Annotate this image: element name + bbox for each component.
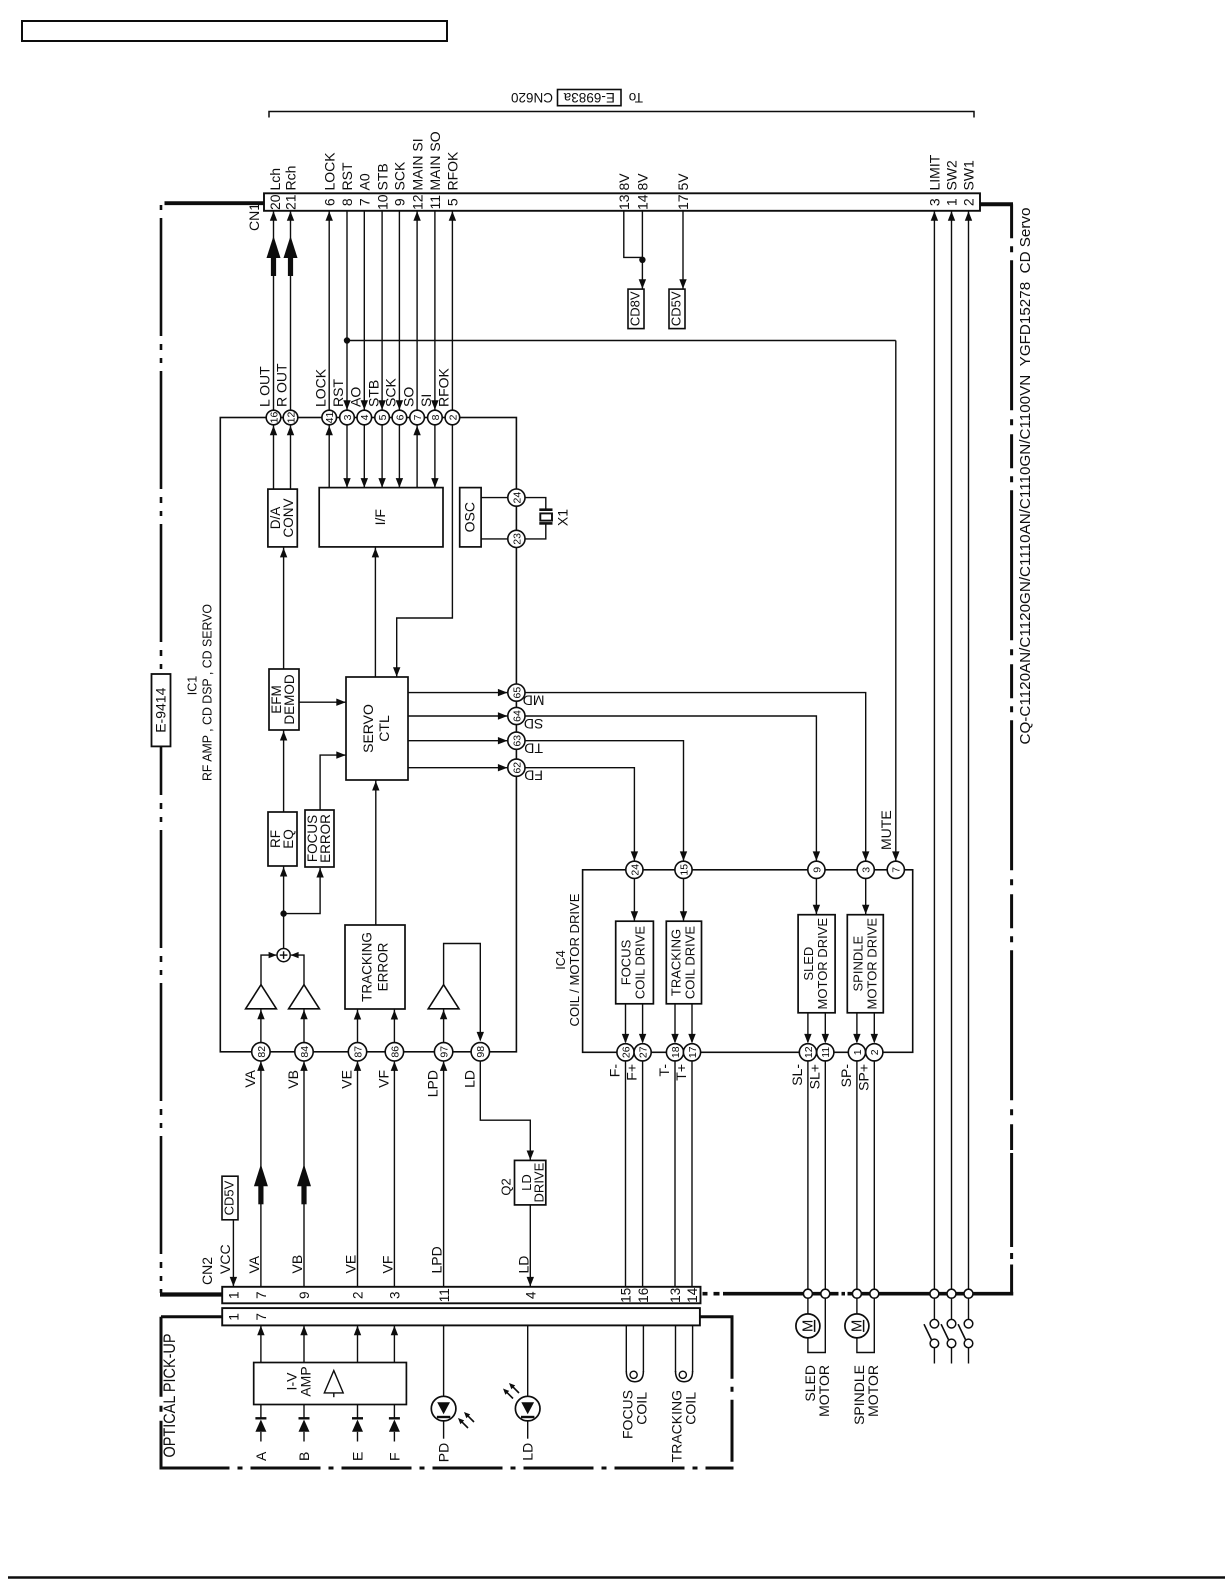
- IC4 pin circle 15: [675, 861, 692, 878]
- svg-text:14: 14: [685, 1287, 700, 1303]
- wire coil/motor drive output: [691, 1004, 693, 1042]
- svg-text:1: 1: [944, 198, 960, 206]
- svg-text:F: F: [386, 1452, 402, 1461]
- svg-text:Q2: Q2: [498, 1178, 513, 1195]
- svg-text:18: 18: [670, 1046, 682, 1058]
- arrow down into IC4 pin 7 (MUTE): [892, 851, 899, 861]
- block OSC: [460, 488, 481, 547]
- svg-text:VCC: VCC: [217, 1244, 233, 1274]
- wire SERVO CTL to I/F: [374, 547, 376, 677]
- svg-text:6: 6: [321, 198, 337, 206]
- svg-text:3: 3: [927, 198, 943, 206]
- wire LD DRIVE to CN2 pin 4: [529, 1205, 531, 1286]
- wire coil line to CN2: [691, 1061, 693, 1287]
- svg-text:97: 97: [439, 1046, 451, 1058]
- block FOCUS COIL DRIVE: [616, 921, 654, 1004]
- arrow down into IC4 bottom pin: [622, 1034, 629, 1044]
- svg-text:FD: FD: [524, 768, 543, 784]
- amp triangle A (VA): [246, 985, 277, 1009]
- IC4 pin circle 12 (SL-): [789, 1044, 817, 1086]
- thick arrow Rch: [284, 236, 298, 258]
- arrow down into FOCUS COIL DRIVE: [631, 911, 638, 921]
- arrow down into I/F top: [396, 478, 403, 488]
- svg-text:X1: X1: [554, 509, 570, 526]
- svg-text:24: 24: [511, 492, 523, 504]
- wire pin 86 to TRACKING ERROR: [393, 1009, 395, 1043]
- wire summing node to RF EQ: [283, 866, 285, 949]
- power label CD8V box: [628, 289, 644, 329]
- block EFM DEMOD: [269, 669, 299, 730]
- svg-text:SP-: SP-: [838, 1064, 854, 1088]
- IC4 pin circle 18 (T-): [656, 1044, 684, 1077]
- CN1 pin 1 (SW2): [944, 160, 960, 206]
- wire SERVO CTL to pin 62 (FD): [408, 767, 507, 769]
- svg-text:26: 26: [620, 1046, 632, 1058]
- amp triangle B (VB): [289, 985, 320, 1009]
- wire SW1 from switch to CN1: [968, 211, 970, 1290]
- arrow up into IC1 pin 7 (SO): [413, 426, 420, 436]
- block RF EQ: [268, 812, 297, 866]
- svg-text:5: 5: [445, 198, 461, 206]
- arrow down into CD8V: [639, 279, 646, 289]
- amp triangle inside I-V AMP: [324, 1371, 343, 1393]
- arrow down into IC4 pin 3: [862, 851, 869, 861]
- svg-text:5: 5: [377, 414, 389, 420]
- svg-text:2: 2: [961, 198, 977, 206]
- CN1 pin 12 (MAIN SI): [409, 138, 425, 210]
- svg-text:SL-: SL-: [789, 1064, 805, 1086]
- IC1 pin circle 2 (RFOK): [436, 367, 460, 424]
- arrow down into I/F top: [378, 478, 385, 488]
- arrow up into amp A: [257, 1010, 264, 1020]
- svg-text:SCK: SCK: [392, 161, 408, 190]
- svg-text:1: 1: [227, 1313, 242, 1321]
- svg-text:AMP: AMP: [298, 1366, 314, 1396]
- crystal X1: [539, 510, 552, 524]
- arrow up into CN1 (SW1): [965, 211, 972, 221]
- arrow up into IC1 pin 12: [287, 426, 294, 436]
- arrow down into IC4 bottom pin: [853, 1034, 860, 1044]
- tracking coil: [676, 1325, 693, 1381]
- wire IC4 pin 24 to FOCUS COIL DRIVE: [633, 878, 635, 920]
- wire branch to FOCUS ERROR: [284, 868, 321, 914]
- IC4 pin circle 1 (SP-): [838, 1044, 866, 1088]
- svg-text:1: 1: [227, 1292, 242, 1300]
- arrow up into CN1 pin 5 (RFOK): [449, 211, 456, 221]
- svg-text:11: 11: [437, 1288, 452, 1302]
- svg-text:84: 84: [299, 1046, 311, 1058]
- junction dot on RF line: [280, 910, 286, 916]
- wire photodiode E to pickup connector: [357, 1325, 359, 1362]
- wire IC1 pin circle to I/F: [346, 425, 348, 488]
- IC4 pin circle 3: [857, 861, 874, 878]
- arrow down into I/F top: [431, 478, 438, 488]
- wire SERVO CTL to pin 64 (SD): [408, 715, 507, 717]
- svg-text:F-: F-: [607, 1064, 623, 1078]
- CN1 pin 14 (8V): [635, 173, 651, 210]
- wire VF from IC1 to CN2: [393, 1061, 395, 1287]
- IC4 pin circle 11 (SL+): [806, 1044, 834, 1090]
- svg-text:VB: VB: [289, 1255, 305, 1274]
- svg-text:L OUT: L OUT: [257, 366, 273, 407]
- CN1 pin 10 (STB): [374, 163, 390, 210]
- svg-text:VB: VB: [285, 1070, 301, 1089]
- label FOCUS COIL: [619, 1390, 649, 1439]
- arrow up into D/A CONV bottom: [280, 548, 287, 558]
- wire FD from pin 62 to IC4 pin 24: [525, 768, 634, 861]
- wire SERVO CTL to pin 63 (TD): [408, 740, 507, 742]
- svg-text:CD8V: CD8V: [628, 291, 643, 326]
- svg-text:RFOK: RFOK: [445, 151, 461, 191]
- wire CD5V to CN2 pin 1: [232, 1220, 234, 1286]
- arrow down into CN2 pin 1 (VCC): [230, 1277, 237, 1287]
- arrow up into CN1 (LIMIT): [931, 211, 938, 221]
- svg-text:15: 15: [678, 864, 690, 876]
- arrow up into CN1 (SW2): [948, 211, 955, 221]
- wire coil line to CN2: [642, 1061, 644, 1287]
- svg-text:MUTE: MUTE: [878, 810, 894, 850]
- IC4 pin circle 26 (F-): [607, 1044, 635, 1078]
- arrow right into summing node: [269, 952, 277, 958]
- IC1 pin circle 86 (VF): [375, 1043, 403, 1088]
- svg-text:MOTOR DRIVE: MOTOR DRIVE: [815, 918, 830, 1010]
- border bottom-left thick stub to CN2: [160, 1292, 223, 1296]
- svg-text:12: 12: [285, 412, 297, 424]
- wire CN1 to IC1 (SCK): [398, 211, 400, 410]
- arrow down into SLED MOTOR DRIVE: [813, 905, 820, 915]
- svg-text:17: 17: [687, 1046, 699, 1058]
- svg-text:TD: TD: [524, 741, 543, 757]
- svg-text:COIL / MOTOR DRIVE: COIL / MOTOR DRIVE: [568, 894, 582, 1027]
- svg-text:LPD: LPD: [429, 1246, 445, 1273]
- svg-text:SL+: SL+: [806, 1064, 822, 1089]
- CN1 pin 8 (RST): [339, 162, 355, 206]
- block SPINDLE MOTOR DRIVE: [847, 915, 883, 1013]
- arrow down into IC1 pin circle: [378, 400, 385, 410]
- svg-text:3: 3: [342, 414, 354, 420]
- arrow down into IC1 pin circle: [361, 400, 368, 410]
- page bottom rule: [8, 1576, 1225, 1579]
- svg-text:2: 2: [351, 1292, 366, 1300]
- wire amp C output to pin 98: [444, 944, 481, 1041]
- svg-text:62: 62: [511, 762, 523, 774]
- wire coil/motor drive output: [824, 1013, 826, 1042]
- wire IC4 pin 9 to SLED MOTOR DRIVE: [815, 878, 817, 914]
- svg-text:TRACKING: TRACKING: [360, 932, 375, 1002]
- power label CD5V box (top): [669, 289, 685, 329]
- svg-text:10: 10: [374, 194, 390, 210]
- arrow down into IC4 bottom pin: [822, 1034, 829, 1044]
- CN1 pin 9 (SCK): [392, 161, 408, 206]
- wire CN1 pin17 5V to CD5V: [682, 211, 684, 289]
- wire motor line to border: [873, 1061, 875, 1290]
- svg-text:VF: VF: [379, 1256, 395, 1274]
- CN1 pin 21 (Rch): [283, 166, 299, 210]
- arrow down into IC4 bottom pin: [871, 1034, 878, 1044]
- CN1 pin 17 (5V): [675, 173, 691, 210]
- arrow down into IC4 bottom pin: [671, 1034, 678, 1044]
- OPTICAL PICK-UP dash-dot box: [160, 1317, 734, 1468]
- wire LD to pickup connector: [527, 1325, 529, 1396]
- arrow up into CN1 pin 20: [270, 211, 277, 221]
- border feedthrough circles (SL-,SL+,SP-,SP+,LIMIT,SW2,SW1): [803, 1289, 973, 1298]
- block I/F: [319, 488, 443, 547]
- svg-text:FOCUS: FOCUS: [619, 939, 634, 985]
- svg-text:E: E: [350, 1452, 366, 1461]
- svg-text:LIMIT: LIMIT: [927, 154, 943, 190]
- IC1 pin circle 84 (VB): [285, 1043, 313, 1089]
- svg-text:LOCK: LOCK: [312, 368, 328, 407]
- svg-text:CN620: CN620: [511, 90, 553, 105]
- light arrows from LD: [503, 1383, 519, 1399]
- amp triangle C (LPD): [428, 985, 459, 1009]
- wire pin 84 to amp B: [303, 1009, 305, 1043]
- IC1 block outline: [220, 418, 516, 1052]
- svg-text:MOTOR: MOTOR: [816, 1365, 832, 1417]
- svg-text:SP+: SP+: [855, 1064, 871, 1091]
- wire amp A to summing node: [261, 955, 276, 1008]
- wire OSC to pin 23: [481, 538, 508, 540]
- svg-text:7: 7: [357, 198, 373, 206]
- wire IC1 pin circle to I/F: [363, 425, 365, 488]
- transistor Q2 LD DRIVE block: [515, 1160, 547, 1205]
- arrow up into RF EQ bottom: [280, 867, 287, 877]
- svg-text:SO: SO: [400, 387, 416, 407]
- wire IC1 pin12 to D/A CONV: [290, 425, 292, 489]
- arrow down into TRACKING COIL DRIVE: [680, 911, 687, 921]
- svg-text:12: 12: [409, 194, 425, 210]
- svg-text:14: 14: [635, 194, 651, 210]
- wire MD from pin 65 to IC4 pin 3: [525, 693, 866, 861]
- svg-text:8: 8: [430, 414, 442, 420]
- svg-text:MAIN SO: MAIN SO: [427, 131, 443, 190]
- svg-text:2: 2: [869, 1049, 881, 1055]
- IC1 pin circle 82 (VA): [242, 1043, 270, 1088]
- arrow up into I/F bottom: [372, 548, 379, 558]
- svg-text:COIL DRIVE: COIL DRIVE: [633, 926, 648, 1000]
- svg-text:98: 98: [475, 1046, 487, 1058]
- arrow down into IC4 bottom pin: [688, 1034, 695, 1044]
- svg-text:3: 3: [388, 1292, 403, 1300]
- light arrows into PD: [458, 1412, 474, 1428]
- IC4 block outline: [583, 870, 913, 1053]
- svg-text:CQ-C1120AN/C1120GN/C1110AN/C11: CQ-C1120AN/C1120GN/C1110AN/C1110GN/C1100…: [1017, 208, 1034, 745]
- svg-text:9: 9: [297, 1292, 312, 1300]
- label SLED MOTOR: [802, 1365, 832, 1417]
- svg-text:24: 24: [629, 864, 641, 876]
- wire MUTE horizontal run: [347, 340, 896, 342]
- wire pin23 to crystal X1: [525, 524, 546, 539]
- arrow down into IC1 pin circle: [396, 400, 403, 410]
- svg-text:SD: SD: [524, 716, 543, 732]
- IC4 pin circle 2 (SP+): [855, 1044, 883, 1091]
- svg-text:A: A: [253, 1451, 269, 1461]
- arrow down into IC4 bottom pin: [804, 1034, 811, 1044]
- svg-text:SLED: SLED: [801, 947, 816, 981]
- arrow up into amp C: [440, 1010, 447, 1020]
- svg-text:82: 82: [256, 1046, 268, 1058]
- IC4 pin circle 24: [626, 861, 643, 878]
- wire CN1 to IC1 (R): [290, 211, 292, 410]
- wire IC1 pin circle to I/F: [328, 425, 330, 488]
- svg-text:LPD: LPD: [425, 1070, 441, 1097]
- wire TRACKING ERROR to SERVO CTL: [375, 780, 377, 925]
- IC1 pin circle 4 (AO): [348, 387, 372, 425]
- arrow up into amp B: [300, 1010, 307, 1020]
- wire coil/motor drive output: [873, 1013, 875, 1042]
- svg-text:COIL DRIVE: COIL DRIVE: [683, 926, 698, 1000]
- svg-text:8: 8: [339, 198, 355, 206]
- arrow up into TRACKING ERROR (VE): [354, 1010, 361, 1020]
- svg-text:LOCK: LOCK: [321, 152, 337, 191]
- wire RF EQ to EFM DEMOD: [283, 730, 285, 812]
- photodiode A: [255, 1405, 266, 1442]
- svg-text:Rch: Rch: [283, 166, 299, 191]
- wire LIMIT from switch to CN1: [933, 211, 935, 1290]
- wire motor line to border: [807, 1061, 809, 1290]
- title box (empty): [22, 21, 447, 41]
- svg-text:VF: VF: [375, 1070, 391, 1088]
- arrow up into FOCUS ERROR bottom: [316, 868, 323, 878]
- wire coil line to CN2: [625, 1061, 627, 1287]
- IC1 pin circle 65 (MD): [508, 684, 545, 709]
- power label CD5V box (CN2 VCC): [222, 1176, 238, 1220]
- svg-text:LD: LD: [520, 1443, 536, 1461]
- svg-text:OSC: OSC: [461, 502, 477, 532]
- wire IC4 pin 15 to TRACKING COIL DRIVE: [683, 878, 685, 920]
- arrow down into IC4 pin 9: [813, 851, 820, 861]
- wire motor line to border: [856, 1061, 858, 1290]
- wire VA from IC1 to CN2: [260, 1061, 262, 1287]
- wire MUTE vertical run to IC4: [895, 341, 897, 861]
- svg-text:11: 11: [427, 195, 443, 210]
- svg-text:64: 64: [511, 710, 523, 722]
- svg-text:SW2: SW2: [944, 160, 960, 191]
- block FOCUS ERROR: [305, 810, 334, 867]
- arrow up into pickup connector (B): [300, 1326, 307, 1336]
- arrow up into pickup connector (F): [391, 1326, 398, 1336]
- arrow right into SERVO CTL (focus error): [336, 751, 346, 758]
- wire EFM DEMOD to SERVO CTL: [299, 701, 346, 703]
- svg-text:ERROR: ERROR: [318, 814, 333, 863]
- svg-text:16: 16: [268, 412, 280, 424]
- arrow up into IC1 pin (LPD): [440, 1061, 447, 1071]
- wire photodiode F to pickup connector: [393, 1325, 395, 1362]
- IC1 pin circle 12 (R OUT): [274, 363, 298, 425]
- IC1 pin circle 24: [508, 489, 525, 506]
- arrow right into SERVO CTL (EFM): [336, 699, 346, 706]
- svg-text:TRACKING: TRACKING: [669, 929, 684, 996]
- svg-text:E-9414: E-9414: [152, 687, 168, 732]
- arrow down into IC1 pin circle: [431, 400, 438, 410]
- arrow down into CN2 pin 4: [527, 1277, 534, 1287]
- svg-text:CD5V: CD5V: [669, 291, 684, 326]
- arrow down into CD5V: [679, 279, 686, 289]
- wire motor line to border: [824, 1061, 826, 1290]
- arrow down into IC1 pin circle: [343, 400, 350, 410]
- block TRACKING ERROR: [345, 925, 405, 1009]
- svg-text:RST: RST: [339, 162, 355, 190]
- thick arrow VB: [297, 1164, 311, 1186]
- svg-text:MOTOR: MOTOR: [865, 1365, 881, 1417]
- svg-text:LD: LD: [461, 1070, 477, 1088]
- photodiode F: [389, 1405, 400, 1442]
- border left dash-dot line: [160, 205, 163, 1293]
- svg-text:RF AMP , CD DSP , CD SERVO: RF AMP , CD DSP , CD SERVO: [201, 604, 215, 781]
- wire pin 97 to amp C: [443, 1009, 445, 1043]
- svg-text:SCK: SCK: [383, 378, 399, 407]
- arrow right into pin 63: [498, 737, 508, 744]
- svg-text:SI: SI: [418, 394, 434, 407]
- IC1 pin circle 41 (LOCK): [312, 368, 336, 425]
- wire IC1 pin circle to I/F: [381, 425, 383, 488]
- svg-text:20: 20: [267, 194, 283, 210]
- CN1 pin 20 (Lch): [267, 168, 283, 210]
- svg-text:6: 6: [394, 414, 406, 420]
- IC4 pin circle 17 (T+): [673, 1044, 701, 1081]
- svg-text:9: 9: [392, 198, 408, 206]
- wire FOCUS ERROR to SERVO CTL: [320, 755, 346, 810]
- arrow up into IC1 pin (VA): [257, 1061, 264, 1071]
- arrow left into summing node: [291, 952, 299, 958]
- arrow down into IC4 bottom pin: [639, 1034, 646, 1044]
- IC1 pin circle 6 (SCK): [383, 378, 407, 425]
- svg-text:11: 11: [820, 1047, 832, 1058]
- wire CN1 to IC1 (RST): [346, 211, 348, 410]
- svg-text:7: 7: [412, 414, 424, 420]
- wire IC1 pin16 to D/A CONV: [273, 425, 275, 489]
- label SPINDLE MOTOR: [851, 1365, 881, 1425]
- arrow right into pin 64: [498, 712, 508, 719]
- wire IC1 pin circle to I/F: [416, 425, 418, 488]
- CN1 pin 5 (RFOK): [445, 151, 461, 206]
- wire PD to pickup connector: [443, 1325, 445, 1396]
- wire VB from IC1 to CN2: [303, 1061, 305, 1287]
- laser diode LD: [515, 1396, 540, 1438]
- photodiode PD: [431, 1396, 456, 1438]
- wire LPD from IC1 to CN2: [443, 1061, 445, 1287]
- svg-text:17: 17: [675, 194, 691, 210]
- wire TD from pin 63 to IC4 pin 15: [525, 741, 684, 861]
- svg-text:5V: 5V: [675, 173, 691, 191]
- svg-text:4: 4: [359, 414, 371, 420]
- svg-text:86: 86: [389, 1046, 401, 1058]
- arrow up into CN1 pin 12 (MAIN SI): [413, 211, 420, 221]
- svg-text:VA: VA: [246, 1255, 262, 1273]
- sled motor M1: [796, 1298, 825, 1352]
- arrow up into TRACKING ERROR (VF): [391, 1010, 398, 1020]
- wire CN1 pin14 8V to CD8V: [641, 211, 643, 289]
- svg-text:RFOK: RFOK: [436, 367, 452, 407]
- svg-text:DRIVE: DRIVE: [531, 1162, 546, 1202]
- svg-text:SPINDLE: SPINDLE: [850, 936, 865, 992]
- wire pin24 to crystal X1: [525, 498, 546, 509]
- wire EFM DEMOD to D/A CONV: [283, 547, 285, 669]
- label To E-6983a CN620 (rotated 180): [511, 90, 643, 106]
- border top-left thick segment: [165, 201, 266, 205]
- svg-text:ERROR: ERROR: [376, 942, 391, 991]
- junction dot 8V: [639, 257, 645, 263]
- block TRACKING COIL DRIVE: [666, 921, 701, 1004]
- wire CN1 pin13 8V: [624, 211, 643, 258]
- arrow up into IC1 pin 16: [270, 426, 277, 436]
- arrow up into CN1 pin 6 (LOCK): [326, 211, 333, 221]
- IC4 pin circle 7: [887, 861, 904, 878]
- IC1 pin circle 5 (STB): [365, 380, 389, 425]
- IC1 pin circle 3 (RST): [330, 379, 354, 425]
- LIMIT switch: [924, 1298, 939, 1363]
- border top-right thick segment: [980, 202, 1013, 206]
